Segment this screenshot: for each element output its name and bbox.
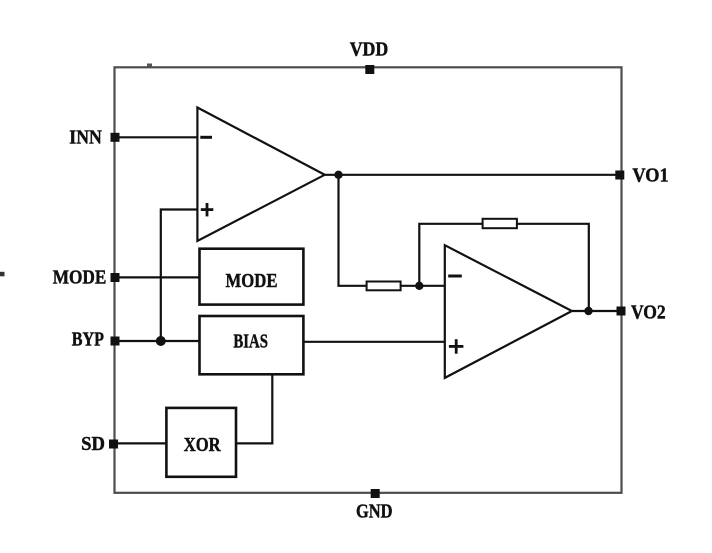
svg-text:GND: GND — [356, 501, 393, 523]
svg-text:BIAS: BIAS — [233, 330, 268, 352]
pin VO1 — [615, 165, 668, 187]
pin MODE — [53, 267, 120, 289]
wire BYP pin to BIAS block — [115, 340, 200, 342]
svg-text:VO1: VO1 — [632, 165, 668, 187]
svg-text:VO2: VO2 — [631, 302, 666, 324]
junction dot U2 output node — [584, 307, 592, 315]
svg-text:MODE: MODE — [53, 267, 107, 289]
top border tick artifact — [147, 64, 152, 67]
pin INN — [69, 126, 119, 148]
wire U2 output to VO2 pin — [572, 310, 621, 312]
chip boundary box — [115, 67, 622, 493]
wire BYP riser to op-amp U1 non-inverting input — [161, 210, 198, 342]
op-amp U1 — [197, 108, 324, 242]
resistor R2 — [483, 219, 517, 228]
XOR block — [166, 408, 236, 477]
pin VO2 — [617, 302, 666, 324]
wire R2 to U2 output node — [517, 224, 589, 311]
svg-text:XOR: XOR — [184, 434, 221, 456]
wire feedback riser node A up to R2 — [419, 224, 482, 286]
MODE block — [200, 249, 304, 305]
BIAS block — [200, 316, 304, 374]
svg-text:SD: SD — [81, 433, 105, 455]
junction dot BYP node — [156, 336, 166, 346]
wire U1 output riser down to R1 — [339, 175, 367, 286]
pin BYP — [72, 329, 120, 351]
wire R1 to node A — [401, 285, 420, 287]
wire MODE pin to MODE block — [115, 276, 200, 278]
pin VDD — [350, 38, 389, 74]
wire SD pin to XOR block — [114, 442, 167, 444]
junction dot node A — [415, 282, 423, 290]
junction dot U1 output node — [334, 171, 342, 179]
wire U1 output to VO1 pin — [325, 174, 620, 176]
svg-text:VDD: VDD — [350, 38, 389, 60]
resistor R1 — [367, 282, 401, 291]
wire BIAS block to U2 non-inverting input — [303, 341, 444, 343]
svg-text:BYP: BYP — [72, 329, 104, 351]
left edge artifact mark — [0, 272, 5, 277]
wire node A to U2 inverting input — [419, 285, 445, 287]
wire BIAS block bottom riser to XOR output — [236, 374, 272, 443]
pin SD — [81, 433, 118, 455]
svg-text:MODE: MODE — [226, 270, 278, 292]
svg-text:INN: INN — [69, 126, 102, 148]
wire INN to op-amp U1 inverting input — [115, 136, 197, 138]
op-amp U2 — [445, 245, 572, 378]
pin GND — [356, 489, 393, 523]
